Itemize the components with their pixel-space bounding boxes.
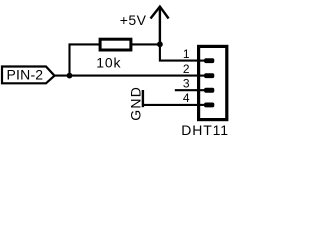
supply +5V arrow symbol <box>151 7 169 45</box>
connector U1 body <box>199 46 227 119</box>
resistor R1 body <box>100 39 131 50</box>
svg-text:DHT11: DHT11 <box>181 122 229 138</box>
net flag PIN-2 outline <box>2 67 55 84</box>
pin 2 line <box>199 75 205 77</box>
wire resistor-left to node A (vertical + horizontal) <box>70 44 100 76</box>
wire +5V junction down and right to pin 1 <box>160 44 201 60</box>
pin 1 contact <box>204 58 214 63</box>
svg-text:10k: 10k <box>96 55 121 71</box>
pin 3 stub wire <box>175 89 205 91</box>
svg-text:PIN-2: PIN-2 <box>7 67 44 83</box>
svg-text:1: 1 <box>183 47 190 61</box>
wire GND bar to pin 4 <box>143 104 201 106</box>
pin 4 line <box>199 104 205 106</box>
pin 2 contact <box>204 73 214 78</box>
svg-text:2: 2 <box>183 62 190 76</box>
wire resistor-right to +5V junction <box>132 43 161 45</box>
svg-text:+5V: +5V <box>120 12 147 28</box>
ground GND bar <box>142 90 144 107</box>
svg-text:3: 3 <box>183 76 190 90</box>
junction node A (PIN-2 net) <box>67 73 73 79</box>
junction node +5V net <box>157 41 163 47</box>
pin 3 contact <box>204 88 214 93</box>
svg-text:GND: GND <box>127 86 143 121</box>
pin 4 contact <box>204 103 214 108</box>
svg-text:4: 4 <box>183 91 190 105</box>
wire PIN-2 flag to pin 2 <box>55 75 202 77</box>
pin 1 line <box>199 60 205 62</box>
